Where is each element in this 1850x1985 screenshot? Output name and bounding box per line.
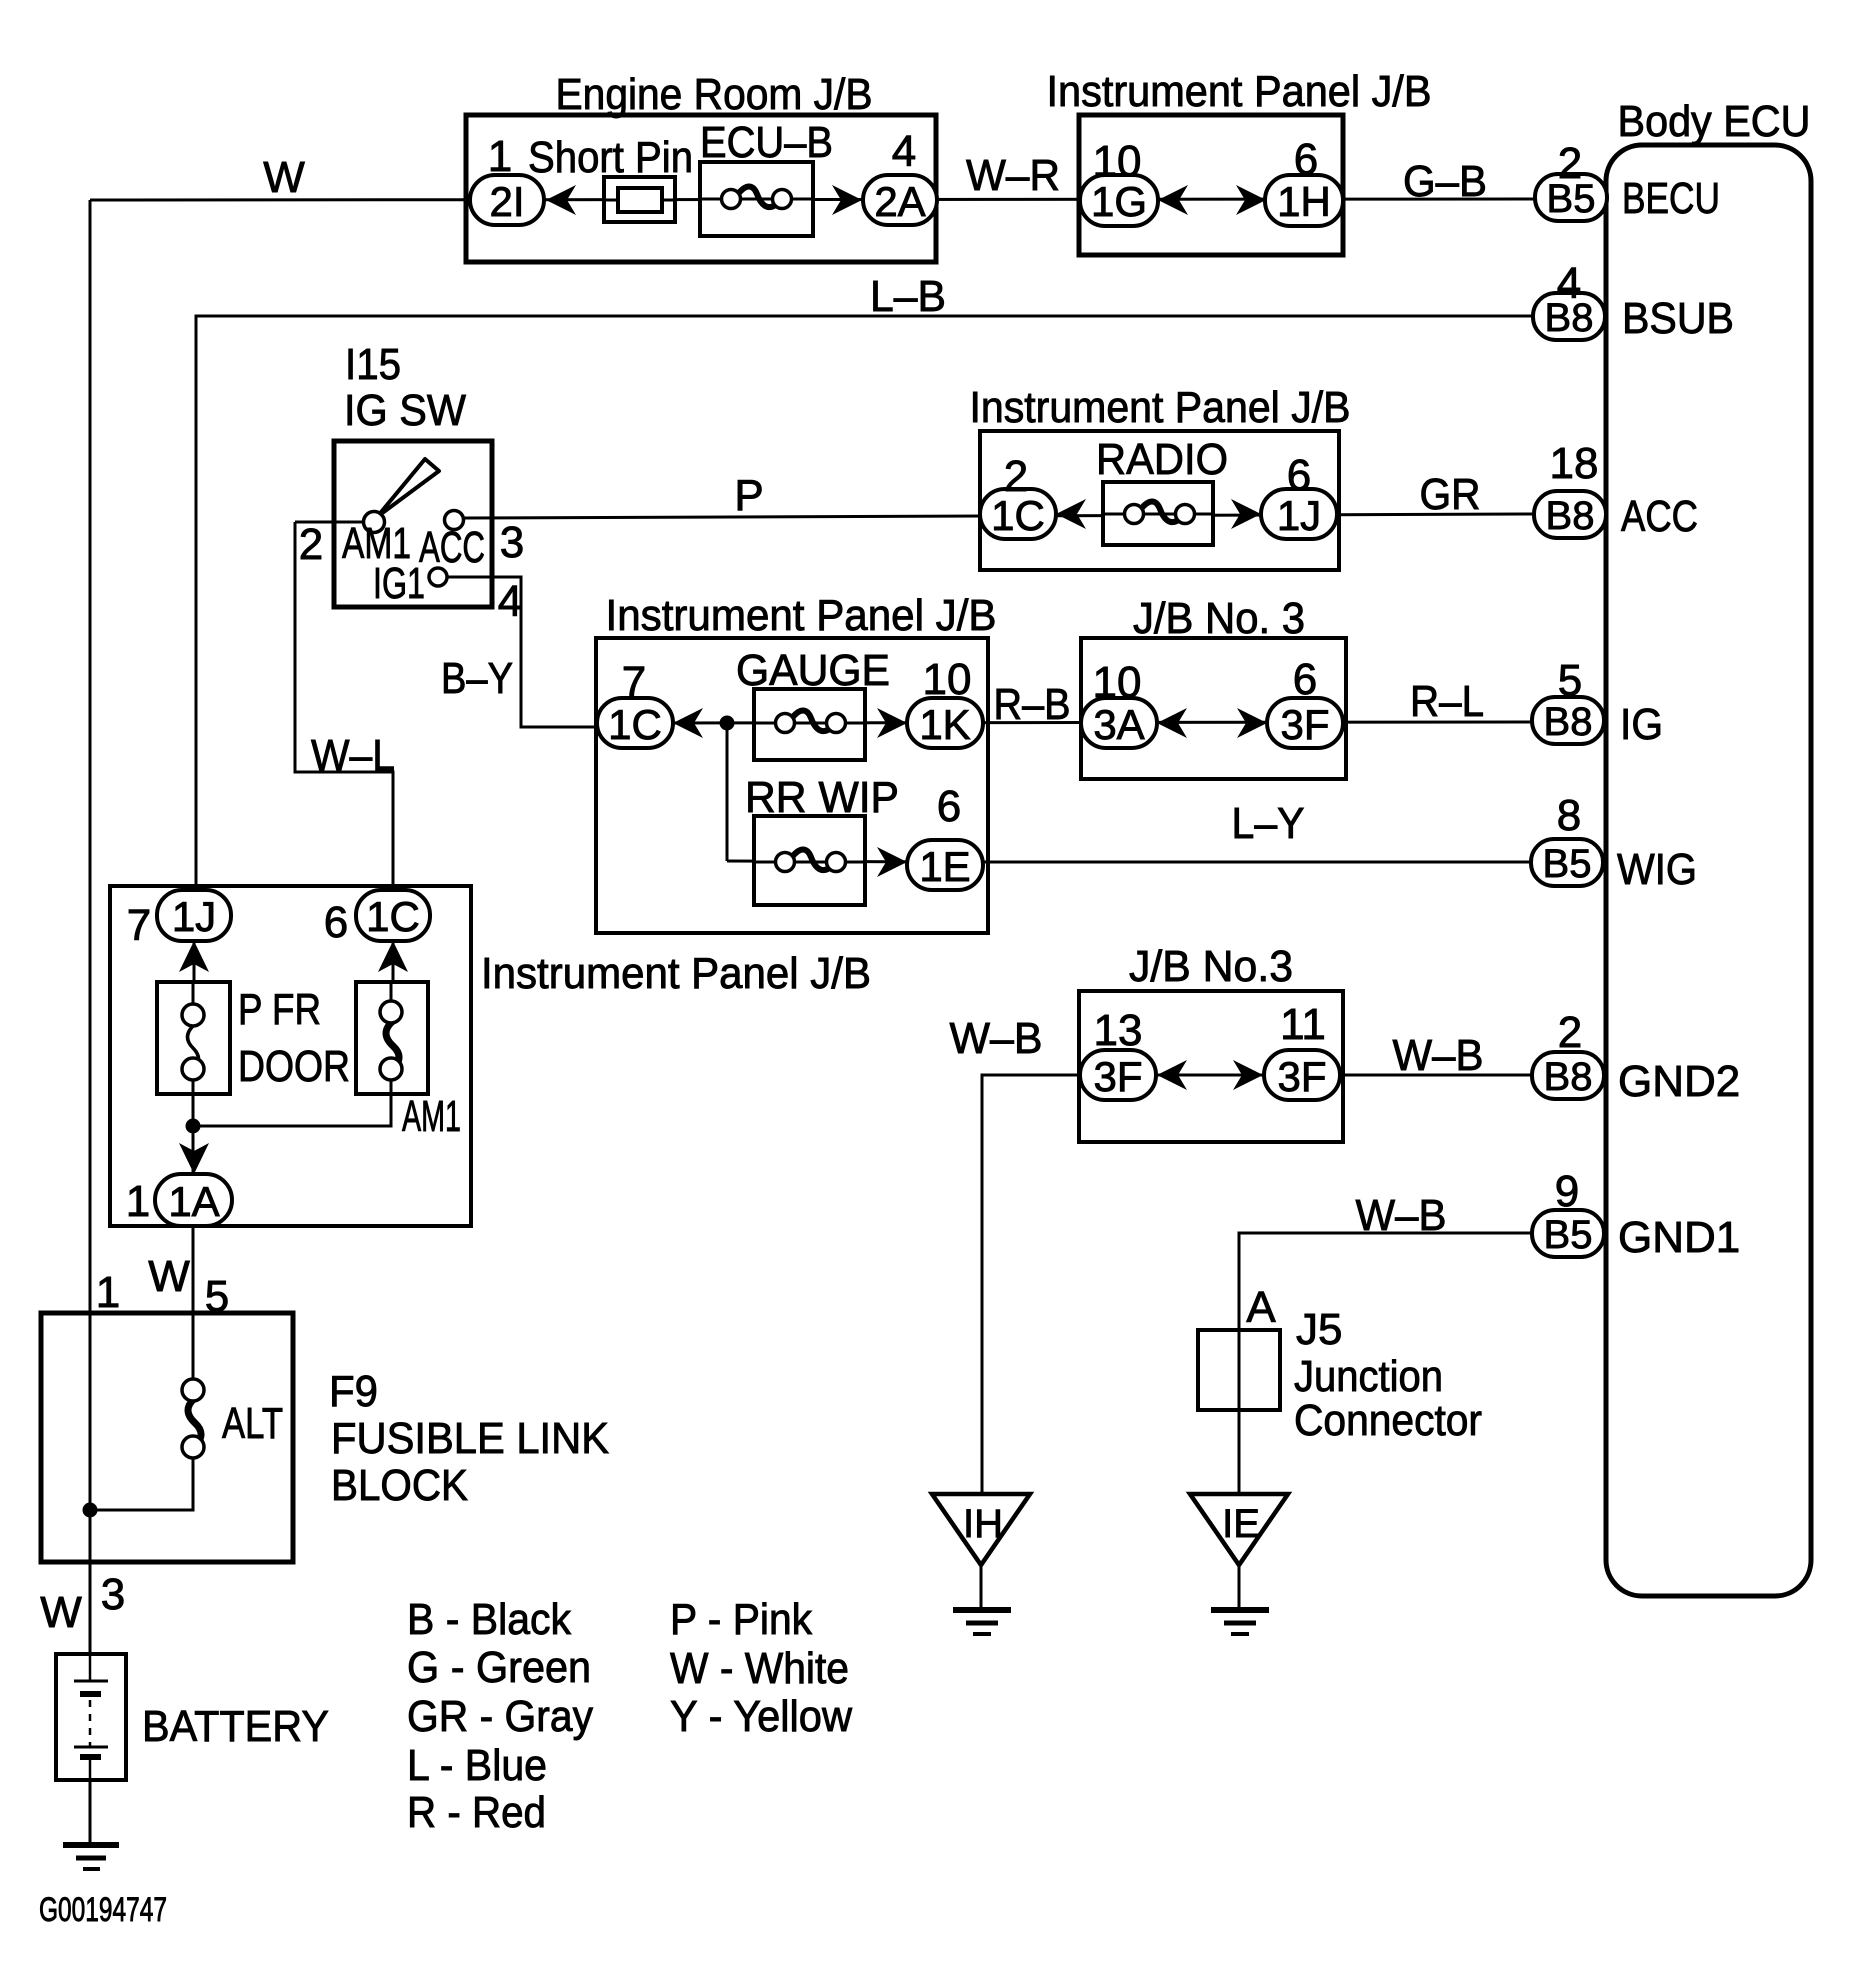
svg-text:L–B: L–B <box>870 272 946 321</box>
wire ALT branch to junction with battery feed <box>90 1458 193 1510</box>
svg-text:Instrument Panel J/B: Instrument Panel J/B <box>606 591 997 640</box>
svg-text:2I: 2I <box>489 178 524 225</box>
arrow into 2I <box>546 185 576 215</box>
connector 3F pin 11 <box>1264 1050 1340 1100</box>
svg-text:7: 7 <box>127 901 151 950</box>
connector 1C GAUGE <box>597 698 673 748</box>
connector 1E <box>907 840 983 890</box>
svg-text:2A: 2A <box>874 178 925 225</box>
svg-text:1C: 1C <box>366 893 420 940</box>
svg-text:1A: 1A <box>168 1178 219 1225</box>
svg-text:1K: 1K <box>919 701 970 748</box>
svg-text:3: 3 <box>101 1570 125 1619</box>
svg-text:1H: 1H <box>1277 178 1331 225</box>
svg-text:10: 10 <box>923 655 972 704</box>
svg-text:GR - Gray: GR - Gray <box>407 1692 593 1741</box>
svg-text:R - Red: R - Red <box>407 1788 546 1837</box>
svg-text:6: 6 <box>1293 655 1317 704</box>
svg-text:W: W <box>40 1588 82 1637</box>
svg-text:1C: 1C <box>608 701 662 748</box>
svg-text:R–L: R–L <box>1410 677 1484 726</box>
connector 1H <box>1265 175 1343 226</box>
fuse GAUGE <box>754 689 865 760</box>
svg-text:9: 9 <box>1555 1167 1579 1216</box>
svg-text:1: 1 <box>96 1268 120 1317</box>
svg-text:L–Y: L–Y <box>1232 799 1305 848</box>
svg-text:6: 6 <box>324 898 348 947</box>
connector B8 IG <box>1532 697 1604 744</box>
wire W vertical down left side to fusible link block pin 1 <box>89 200 92 1313</box>
svg-text:R–B: R–B <box>994 680 1071 729</box>
Body ECU box <box>1606 145 1811 1596</box>
wire W from battery feed to Engine Room J/B 2I and on to Body ECU BECU <box>90 199 1535 200</box>
svg-text:10: 10 <box>1093 658 1142 707</box>
svg-text:3: 3 <box>500 518 524 567</box>
ground below IH <box>953 1610 1011 1634</box>
svg-text:B5: B5 <box>1543 842 1592 886</box>
svg-text:BLOCK: BLOCK <box>331 1461 468 1510</box>
fusible link ALT <box>182 1379 204 1458</box>
wire from battery negative to ground <box>89 1780 92 1844</box>
connector 1C RADIO <box>980 489 1056 539</box>
arrow into 3F (IG row) <box>1237 708 1267 738</box>
svg-text:GR: GR <box>1420 470 1481 519</box>
svg-text:W–L: W–L <box>311 731 395 780</box>
svg-text:P: P <box>734 471 763 520</box>
F9 fusible link block box <box>41 1313 293 1562</box>
ground below battery <box>63 1845 119 1869</box>
wire from IE triangle to ground <box>1238 1565 1241 1609</box>
svg-text:Y - Yellow: Y - Yellow <box>670 1692 852 1741</box>
svg-text:5: 5 <box>1558 656 1582 705</box>
fuse ECU-B <box>700 162 813 236</box>
connector B8 BSUB <box>1533 293 1605 340</box>
svg-text:BECU: BECU <box>1622 174 1720 223</box>
wire from GAUGE row junction down to RR WIP fuse <box>726 723 729 861</box>
svg-text:B–Y: B–Y <box>441 654 513 703</box>
connector B8 ACC <box>1534 491 1606 538</box>
Instrument Panel J/B box (GAUGE / RR WIP) <box>596 638 988 933</box>
svg-text:2: 2 <box>1558 1008 1582 1057</box>
svg-text:RR WIP: RR WIP <box>745 773 899 822</box>
wire inside fusible link block from pin 1 to battery <box>89 1313 92 1654</box>
arrow into 3A <box>1157 708 1187 738</box>
connector 1C lower left <box>356 890 430 941</box>
svg-text:B8: B8 <box>1544 700 1593 744</box>
arrow up into 1J <box>179 941 209 972</box>
svg-text:2: 2 <box>1004 452 1028 501</box>
connector 1K <box>907 698 983 748</box>
ground connector triangle IE <box>1190 1494 1288 1565</box>
svg-text:DOOR: DOOR <box>238 1042 350 1091</box>
svg-text:Instrument Panel J/B: Instrument Panel J/B <box>481 949 871 998</box>
connector 1G <box>1080 175 1158 226</box>
connector 3F IG row <box>1267 698 1343 748</box>
svg-text:B - Black: B - Black <box>407 1595 572 1644</box>
svg-text:1J: 1J <box>172 893 216 940</box>
battery <box>56 1654 126 1780</box>
svg-text:11: 11 <box>1280 1000 1326 1049</box>
svg-text:ACC: ACC <box>1621 492 1698 541</box>
svg-text:13: 13 <box>1094 1006 1143 1055</box>
svg-text:B8: B8 <box>1546 494 1595 538</box>
svg-text:18: 18 <box>1550 439 1599 488</box>
wire L-B from 1J pin 7 up and right to Body ECU BSUB B8 <box>196 316 1534 891</box>
arrow into 3F pin 13 <box>1157 1060 1187 1090</box>
wire from IG SW AM1 contact pin 2 <box>295 521 364 524</box>
arrow down into 1A <box>179 1143 209 1174</box>
connector 3A <box>1081 698 1157 748</box>
arrow into RADIO 1J <box>1231 499 1261 529</box>
svg-text:RADIO: RADIO <box>1096 435 1228 484</box>
fuse RR WIP <box>754 816 865 905</box>
wire B-Y from IG SW IG1 pin 4 <box>446 577 634 727</box>
wire from 1C pin 6 down to AM1 breaker <box>392 941 395 1012</box>
svg-text:IG: IG <box>1620 700 1663 749</box>
arrow into 1H <box>1236 185 1266 215</box>
wire L-Y from RR WIP 1E to Body ECU WIG B5 <box>727 861 1531 862</box>
connector B5 GND1 <box>1532 1210 1604 1257</box>
connector B8 GND2 <box>1532 1052 1604 1099</box>
Engine Room J/B box <box>466 115 936 262</box>
svg-text:GND2: GND2 <box>1618 1057 1740 1106</box>
connector B5 WIG <box>1531 839 1603 886</box>
circuit breaker AM1 <box>356 982 428 1094</box>
svg-text:P FR: P FR <box>238 985 321 1034</box>
svg-text:G - Green: G - Green <box>407 1643 591 1692</box>
J5 junction connector box <box>1198 1330 1280 1410</box>
wire from AM1 breaker to junction <box>193 1069 391 1126</box>
Instrument Panel J/B box (lower left) <box>110 886 471 1226</box>
svg-text:L - Blue: L - Blue <box>407 1741 547 1790</box>
arrow into 2A <box>832 185 862 215</box>
svg-text:Instrument Panel J/B: Instrument Panel J/B <box>970 383 1351 432</box>
J/B No. 3 box (IG row) <box>1081 638 1346 779</box>
arrow into RADIO 1C <box>1056 499 1086 529</box>
junction node in fusible link block <box>83 1503 98 1518</box>
svg-text:W–B: W–B <box>950 1014 1043 1063</box>
connector 1A <box>155 1174 232 1226</box>
Instrument Panel J/B box (top) <box>1079 115 1343 255</box>
svg-text:W - White: W - White <box>670 1644 849 1693</box>
ground connector triangle IH <box>932 1494 1030 1565</box>
wire W-L down from pin 2 to 1C pin 6 <box>295 522 393 891</box>
svg-text:IG SW: IG SW <box>344 386 466 435</box>
svg-text:ECU–B: ECU–B <box>700 118 833 167</box>
svg-text:B8: B8 <box>1544 1055 1593 1099</box>
svg-text:5: 5 <box>205 1272 229 1321</box>
arrow into 1E <box>877 847 907 877</box>
svg-text:3A: 3A <box>1093 701 1144 748</box>
wire from IH triangle to ground <box>980 1565 983 1609</box>
svg-text:1E: 1E <box>919 843 970 890</box>
svg-text:B5: B5 <box>1544 1213 1593 1257</box>
fuse RADIO <box>1103 482 1213 545</box>
svg-text:10: 10 <box>1093 137 1142 186</box>
svg-text:8: 8 <box>1557 791 1581 840</box>
wire from 1J pin 7 down to P FR DOOR breaker <box>193 941 196 1015</box>
wire from P FR DOOR breaker down through junction to 1A <box>192 1069 195 1174</box>
svg-text:6: 6 <box>937 782 961 831</box>
connector 3F pin 13 <box>1080 1050 1156 1100</box>
arrow into GAUGE 1C <box>673 708 703 738</box>
svg-text:Engine Room J/B: Engine Room J/B <box>556 70 873 119</box>
svg-text:1: 1 <box>126 1177 150 1226</box>
svg-text:3F: 3F <box>1277 1053 1326 1100</box>
svg-text:Short Pin: Short Pin <box>528 133 693 182</box>
svg-text:J/B No. 3: J/B No. 3 <box>1133 594 1305 643</box>
arrow up into 1C <box>378 941 408 972</box>
svg-text:3F: 3F <box>1093 1053 1142 1100</box>
short pin symbol in Engine Room J/B <box>604 177 675 222</box>
svg-text:4: 4 <box>1557 259 1581 308</box>
svg-text:7: 7 <box>622 658 646 707</box>
connector 1J RADIO <box>1261 489 1337 539</box>
svg-text:AM1: AM1 <box>402 1092 461 1141</box>
connector 1J lower left <box>157 890 231 941</box>
svg-text:Body ECU: Body ECU <box>1618 97 1811 146</box>
svg-text:3F: 3F <box>1280 701 1329 748</box>
J/B No.3 box (GND2 row) <box>1079 991 1343 1142</box>
svg-text:2: 2 <box>1558 139 1582 188</box>
connector B5 BECU <box>1535 174 1607 221</box>
svg-text:J/B No.3: J/B No.3 <box>1129 942 1293 991</box>
svg-text:IE: IE <box>1222 1502 1260 1546</box>
ignition switch I15 IG SW box <box>334 441 492 607</box>
arrow into 1G <box>1158 185 1188 215</box>
arrow into GAUGE 1K <box>877 708 907 738</box>
ignition switch contacts and lever <box>364 459 464 586</box>
svg-text:IH: IH <box>963 1502 1003 1546</box>
ground below IE <box>1211 1610 1269 1634</box>
connector 2I <box>470 175 544 225</box>
svg-text:W: W <box>263 153 305 202</box>
arrow into 3F pin 11 <box>1233 1060 1263 1090</box>
svg-text:4: 4 <box>498 577 522 626</box>
wire W-B from IE ground through J5 junction connector to Body ECU GND1 B5 <box>1239 1233 1532 1494</box>
svg-text:WIG: WIG <box>1617 845 1697 894</box>
svg-text:W: W <box>148 1252 190 1301</box>
svg-text:1: 1 <box>488 132 512 181</box>
svg-text:A: A <box>1246 1283 1276 1332</box>
svg-text:G–B: G–B <box>1403 157 1487 206</box>
svg-text:Instrument Panel J/B: Instrument Panel J/B <box>1047 67 1432 116</box>
svg-text:W–B: W–B <box>1356 1191 1447 1240</box>
svg-text:BSUB: BSUB <box>1622 294 1734 343</box>
svg-text:FUSIBLE LINK: FUSIBLE LINK <box>331 1414 609 1463</box>
svg-text:2: 2 <box>299 520 323 569</box>
svg-text:GAUGE: GAUGE <box>736 646 890 695</box>
svg-text:Junction: Junction <box>1294 1352 1443 1401</box>
svg-text:IG1: IG1 <box>373 559 425 608</box>
wire W-B from IH ground up to 3F pin 13 and across to Body ECU GND2 B8 <box>982 1075 1533 1494</box>
svg-text:Connector: Connector <box>1294 1396 1482 1445</box>
wire W from 1A pin 1 down to fusible link block pin 5 <box>192 1226 195 1313</box>
svg-text:GND1: GND1 <box>1618 1213 1740 1262</box>
svg-text:4: 4 <box>892 127 916 176</box>
circuit breaker P FR DOOR <box>157 982 230 1094</box>
svg-text:J5: J5 <box>1296 1305 1342 1354</box>
wire P from IG SW ACC pin 3 to RADIO 1C and on to Body ECU ACC B8 <box>463 514 1534 518</box>
connector 2A <box>863 175 937 225</box>
svg-text:6: 6 <box>1287 451 1311 500</box>
wire R-B / R-L row through GAUGE to Body ECU IG B8 <box>634 722 1532 723</box>
Instrument Panel J/B box (RADIO) <box>980 431 1339 570</box>
svg-text:P - Pink: P - Pink <box>670 1595 813 1644</box>
svg-text:BATTERY: BATTERY <box>142 1702 329 1751</box>
svg-text:ALT: ALT <box>222 1399 283 1448</box>
svg-text:F9: F9 <box>329 1367 378 1416</box>
svg-text:W–R: W–R <box>966 151 1060 200</box>
svg-text:W–B: W–B <box>1393 1031 1484 1080</box>
svg-text:I15: I15 <box>345 340 401 389</box>
junction node P FR DOOR / AM1 <box>186 1119 201 1134</box>
wire ALT branch inside fusible link block <box>192 1313 195 1379</box>
svg-text:ACC: ACC <box>419 523 485 572</box>
svg-text:G00194747: G00194747 <box>39 1891 167 1929</box>
junction node on GAUGE wire <box>720 716 735 731</box>
svg-text:6: 6 <box>1294 135 1318 184</box>
